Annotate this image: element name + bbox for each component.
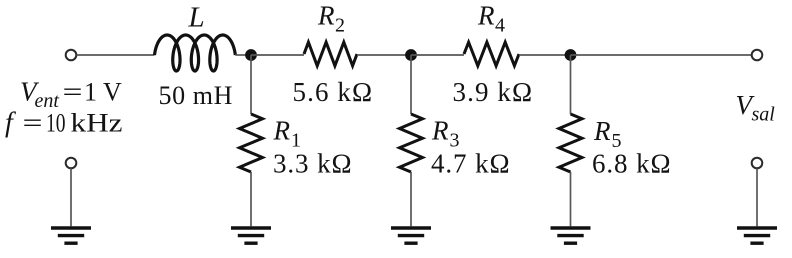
ground (below output terminal) bbox=[737, 226, 777, 243]
svg-text:10: 10 bbox=[46, 109, 66, 138]
svg-text:6.8 kΩ: 6.8 kΩ bbox=[592, 149, 671, 179]
wire: input terminal to inductor bbox=[77, 54, 155, 56]
label R4 bbox=[477, 1, 505, 37]
label f = 10 kHz bbox=[5, 108, 123, 139]
wire: R4 to node C bbox=[519, 54, 571, 56]
svg-text:kHz: kHz bbox=[71, 109, 123, 138]
wire: node A down to R1 bbox=[250, 55, 252, 114]
node B (junction dot) bbox=[405, 49, 417, 61]
svg-text:=: = bbox=[63, 78, 83, 107]
ground (below input terminal) bbox=[51, 226, 91, 243]
svg-text:4.7 kΩ: 4.7 kΩ bbox=[431, 149, 510, 179]
label Vsal bbox=[736, 90, 776, 126]
resistor R3 bbox=[400, 114, 423, 172]
svg-text:R: R bbox=[593, 116, 611, 146]
wire: R1 to ground bbox=[250, 172, 252, 226]
input terminal (bottom left) bbox=[66, 158, 77, 169]
wire: lower-right terminal to ground bbox=[756, 169, 758, 227]
svg-text:R: R bbox=[317, 1, 335, 31]
wire: R3 to ground bbox=[410, 172, 412, 226]
ground (below R3) bbox=[391, 226, 431, 243]
ground (below R5) bbox=[551, 226, 591, 243]
svg-text:L: L bbox=[188, 2, 205, 34]
resistor R1 bbox=[240, 114, 263, 172]
svg-text:2: 2 bbox=[335, 15, 345, 37]
svg-text:=: = bbox=[23, 109, 43, 138]
resistor R4 bbox=[464, 42, 519, 66]
resistor R5 bbox=[559, 114, 582, 172]
wire: R5 to ground bbox=[570, 172, 572, 226]
ground (below R1) bbox=[231, 226, 271, 243]
label R1 bbox=[273, 116, 302, 152]
wire: node C down to R5 bbox=[570, 55, 572, 114]
svg-text:R: R bbox=[273, 116, 291, 146]
svg-text:1 V: 1 V bbox=[84, 78, 122, 107]
svg-text:50 mH: 50 mH bbox=[159, 81, 234, 110]
svg-text:5.6 kΩ: 5.6 kΩ bbox=[293, 77, 374, 107]
label R2 bbox=[317, 1, 345, 37]
output terminal (top right) bbox=[752, 50, 763, 61]
svg-text:f: f bbox=[5, 108, 16, 139]
label Vent = 1 V bbox=[20, 77, 122, 113]
resistor R2 bbox=[304, 42, 357, 66]
label R3 bbox=[431, 116, 460, 152]
svg-text:R: R bbox=[431, 116, 449, 146]
wire: node B to R4 bbox=[411, 54, 464, 56]
svg-text:3.9 kΩ: 3.9 kΩ bbox=[453, 77, 534, 107]
svg-text:sal: sal bbox=[752, 104, 776, 126]
node A (junction dot) bbox=[245, 49, 257, 61]
input terminal (top left) bbox=[66, 50, 77, 61]
svg-text:4: 4 bbox=[495, 15, 505, 37]
node C (junction dot) bbox=[565, 49, 577, 61]
inductor L bbox=[155, 35, 236, 71]
wire: node C to output terminal bbox=[571, 54, 752, 56]
wire: node B down to R3 bbox=[410, 55, 412, 114]
svg-text:R: R bbox=[477, 1, 495, 31]
wire: inductor to node A bbox=[235, 54, 251, 56]
label R5 bbox=[593, 116, 622, 152]
output terminal (bottom right) bbox=[752, 158, 763, 169]
wire: lower-left terminal to ground bbox=[70, 169, 72, 227]
wire: node A to R2 bbox=[251, 54, 304, 56]
svg-text:3.3 kΩ: 3.3 kΩ bbox=[273, 149, 352, 179]
wire: R2 to node B bbox=[357, 54, 411, 56]
